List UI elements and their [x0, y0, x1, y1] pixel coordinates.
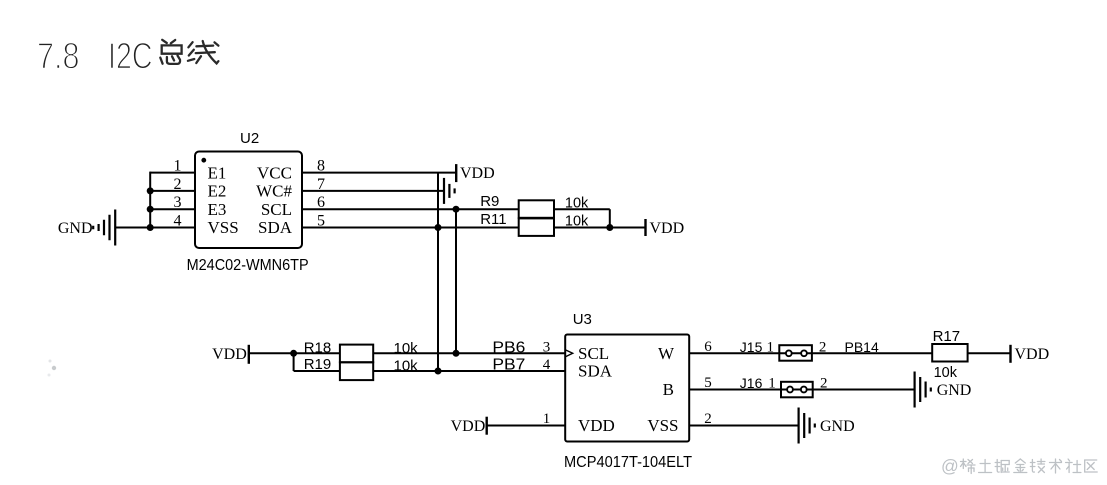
svg-text:M24C02-WMN6TP: M24C02-WMN6TP — [187, 257, 309, 274]
svg-text:1: 1 — [543, 411, 551, 427]
svg-text:R17: R17 — [933, 328, 961, 345]
svg-text:6: 6 — [704, 339, 712, 355]
svg-text:4: 4 — [543, 357, 551, 373]
svg-text:2: 2 — [704, 411, 712, 427]
svg-text:VDD: VDD — [460, 165, 495, 182]
svg-text:SDA: SDA — [578, 362, 613, 381]
svg-text:WC#: WC# — [256, 182, 292, 201]
svg-text:VDD: VDD — [451, 418, 486, 435]
svg-text:E3: E3 — [208, 200, 227, 219]
svg-text:4: 4 — [174, 213, 182, 230]
svg-text:5: 5 — [704, 375, 712, 391]
svg-text:2: 2 — [174, 176, 182, 193]
svg-text:R18: R18 — [304, 339, 332, 356]
svg-text:VSS: VSS — [208, 218, 239, 237]
svg-text:@: @ — [941, 456, 959, 476]
svg-text:J16: J16 — [740, 375, 763, 391]
svg-text:E2: E2 — [208, 182, 227, 201]
svg-text:U2: U2 — [240, 130, 259, 147]
svg-text:1: 1 — [768, 376, 776, 392]
svg-text:GND: GND — [937, 382, 972, 399]
svg-text:3: 3 — [543, 339, 551, 355]
svg-text:6: 6 — [317, 194, 325, 211]
svg-text:E1: E1 — [208, 163, 227, 182]
svg-text:U3: U3 — [573, 311, 592, 328]
svg-text:GND: GND — [820, 418, 855, 435]
svg-text:VDD: VDD — [650, 220, 685, 237]
svg-text:7: 7 — [317, 176, 325, 193]
svg-text:J15: J15 — [740, 339, 763, 355]
svg-text:GND: GND — [58, 220, 93, 237]
svg-text:SCL: SCL — [261, 200, 292, 219]
svg-text:5: 5 — [317, 213, 325, 230]
svg-text:W: W — [658, 344, 675, 363]
svg-text:1: 1 — [766, 339, 774, 355]
svg-text:SCL: SCL — [578, 344, 609, 363]
svg-text:R19: R19 — [304, 356, 332, 373]
svg-text:VSS: VSS — [647, 416, 678, 435]
svg-text:R9: R9 — [480, 193, 499, 210]
svg-text:SDA: SDA — [258, 218, 293, 237]
svg-text:7.8: 7.8 — [37, 35, 80, 76]
svg-text:8: 8 — [317, 158, 325, 175]
svg-text:VDD: VDD — [1015, 346, 1050, 363]
svg-text:VDD: VDD — [212, 346, 247, 363]
svg-text:MCP4017T-104ELT: MCP4017T-104ELT — [564, 454, 692, 471]
svg-text:PB7: PB7 — [492, 357, 525, 374]
svg-text:I2C: I2C — [108, 35, 153, 76]
svg-text:B: B — [663, 380, 674, 399]
svg-text:PB14: PB14 — [845, 339, 879, 355]
svg-text:1: 1 — [174, 158, 182, 175]
svg-text:10k: 10k — [934, 365, 958, 381]
svg-text:PB6: PB6 — [492, 339, 525, 356]
svg-text:VDD: VDD — [578, 416, 615, 435]
svg-text:R11: R11 — [480, 211, 506, 228]
svg-text:VCC: VCC — [257, 163, 292, 182]
svg-text:3: 3 — [174, 194, 182, 211]
